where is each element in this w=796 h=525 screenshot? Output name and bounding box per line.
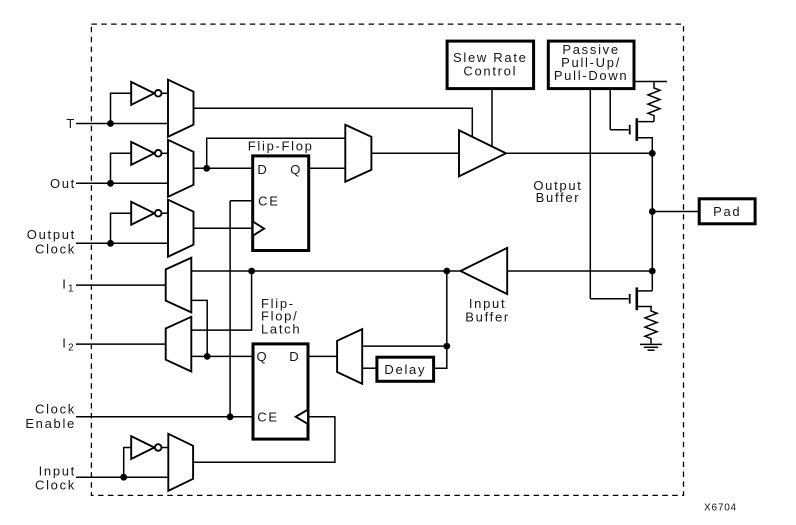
IOB boundary (dashed block outline)	[91, 24, 683, 495]
wire input buffer output	[447, 270, 461, 272]
wire latch Q to I2 mux	[191, 355, 253, 357]
resistor R1 (pull-up)	[648, 82, 660, 122]
inverter (Out row)	[131, 142, 168, 165]
input buffer (triangle)	[461, 248, 508, 294]
wire Clock Enable input	[76, 416, 253, 418]
svg-text:Buffer: Buffer	[536, 190, 581, 205]
wire passive box to pull-up gate	[609, 89, 611, 130]
svg-text:1: 1	[68, 284, 75, 295]
mux (T row)	[168, 80, 194, 137]
wire I2 output	[76, 343, 166, 345]
wire to pad	[652, 211, 699, 213]
wire I2 branch to I2 mux	[191, 271, 251, 330]
mux (output path select)	[345, 125, 371, 182]
wire delay box to junction	[434, 346, 447, 368]
wire Output Clock to inverter	[111, 213, 132, 243]
svg-text:Delay: Delay	[384, 362, 426, 377]
svg-text:Control: Control	[463, 63, 517, 78]
wire Output Clock mux to flip-flop clock	[194, 227, 253, 229]
svg-text:I: I	[62, 336, 67, 351]
mux (Input Clock row)	[168, 434, 193, 491]
junction T riser	[107, 120, 114, 127]
svg-text:Buffer: Buffer	[465, 310, 510, 325]
wire Out input	[76, 182, 168, 184]
wire D bypass to output mux	[207, 138, 346, 168]
wire passive box to pull-down gate	[589, 89, 591, 299]
junction Q net	[204, 353, 211, 360]
junction Out riser	[107, 180, 114, 187]
wire T to inverter	[111, 93, 132, 123]
flip-flop/latch U2 (input register)	[253, 344, 308, 439]
mux (delay select)	[337, 329, 362, 384]
svg-text:Clock: Clock	[35, 402, 76, 417]
wire Clock Enable vertical to flip-flop CE	[229, 201, 231, 417]
wire Input Clock to inverter	[124, 448, 132, 478]
svg-text:Clock: Clock	[35, 478, 76, 493]
svg-text:T: T	[66, 116, 76, 131]
svg-text:Flip-Flop: Flip-Flop	[248, 139, 314, 154]
junction input buffer output	[443, 268, 450, 275]
clock pin marker (flip-flop U1)	[253, 221, 264, 235]
mux (Out row)	[168, 140, 194, 197]
wire slew rate control to output buffer	[491, 89, 493, 147]
resistor R2 (pull-down)	[645, 307, 657, 344]
wire flip-flop CE input	[230, 200, 253, 202]
wire I1 mux lower input to Q net	[191, 300, 207, 356]
box Slew Rate Control	[447, 41, 533, 89]
svg-text:CE: CE	[258, 193, 279, 208]
wire Input Clock input	[76, 476, 168, 478]
junction pad net top	[649, 150, 656, 157]
svg-text:Pull-Down: Pull-Down	[554, 68, 629, 83]
svg-text:Q: Q	[256, 349, 268, 364]
clock pin marker (latch U2)	[296, 410, 308, 425]
svg-text:Clock: Clock	[35, 242, 76, 257]
svg-text:D: D	[257, 162, 268, 177]
svg-text:Input: Input	[39, 463, 76, 478]
wire output mux to output buffer	[371, 152, 459, 154]
svg-text:Q: Q	[290, 162, 302, 177]
wire Output Clock input	[76, 242, 168, 244]
inverter (Output Clock row)	[131, 202, 168, 225]
junction pad stub	[649, 208, 656, 215]
flip-flop U1 (output register)	[248, 139, 314, 251]
svg-text:Output: Output	[27, 227, 76, 242]
label Flip-Flop/Latch	[261, 296, 301, 337]
wire delay mux direct input	[362, 345, 447, 347]
junction Input Clock riser	[120, 474, 127, 481]
wire Out to inverter	[111, 153, 132, 183]
junction Output Clock riser	[107, 240, 114, 247]
wire pad net to input buffer	[507, 270, 652, 272]
output buffer (triangle)	[459, 130, 506, 176]
svg-text:Out: Out	[50, 176, 76, 191]
svg-text:I: I	[62, 277, 67, 292]
junction I2 branch	[248, 268, 255, 275]
junction Clock Enable riser	[227, 413, 234, 420]
wire Input Clock mux to latch clock	[193, 417, 335, 463]
transistor Q2 (pull-down MOSFET)	[590, 287, 652, 310]
junction D bypass	[203, 165, 210, 172]
transistor Q1 (pull-up MOSFET)	[610, 118, 654, 153]
svg-text:2: 2	[68, 343, 75, 354]
mux (Output Clock row)	[168, 200, 194, 257]
wire Out mux to flip-flop D	[194, 167, 253, 169]
junction input buffer net	[649, 268, 656, 275]
wire I1 direct line	[191, 270, 446, 272]
wire I1 output	[76, 284, 166, 286]
wire delay mux delayed input	[362, 367, 377, 369]
inverter (Input Clock row)	[131, 436, 168, 459]
wire pad vertical	[651, 153, 653, 291]
svg-text:Pad: Pad	[713, 204, 741, 219]
mux (I2 select)	[166, 317, 192, 372]
wire T mux output to output buffer tristate	[194, 108, 473, 136]
ground	[640, 344, 662, 350]
wire latch D input	[308, 355, 337, 357]
svg-text:X6704: X6704	[704, 503, 737, 514]
box Delay	[377, 357, 434, 381]
inverter (T row)	[131, 82, 168, 105]
junction delay branch	[443, 343, 450, 350]
wire flip-flop Q to output mux	[309, 167, 346, 169]
svg-text:CE: CE	[257, 409, 278, 424]
wire T input	[76, 123, 168, 125]
wire input buffer to delay net	[446, 271, 448, 346]
svg-text:Latch: Latch	[261, 322, 301, 337]
pull-up rail	[634, 81, 667, 83]
svg-text:Enable: Enable	[25, 416, 76, 431]
wire output buffer to pad net	[506, 152, 652, 154]
svg-text:D: D	[289, 349, 300, 364]
box Pad	[699, 199, 755, 224]
mux (I1 select)	[166, 258, 192, 313]
box Passive Pull-Up/Pull-Down	[548, 41, 634, 89]
